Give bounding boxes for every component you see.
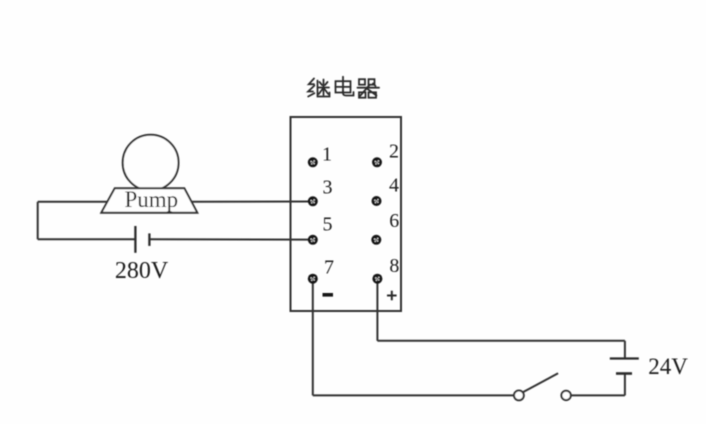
switch left contact [514,391,524,401]
relay label 继电器 (hand-drawn CJK glyphs) [308,77,379,98]
pump trapezoid [101,188,197,213]
wire battery 24V top lead [624,341,626,359]
wire left vertical [37,202,39,240]
battery 24V long plate [610,357,639,359]
pin 7 [308,274,318,284]
器 [359,79,365,85]
polarity minus at pin 7 [323,293,334,297]
svg-text:24V: 24V [648,354,688,379]
battery 280V long plate [134,226,136,253]
pump motor circle [123,135,179,191]
wire switch to battery 24V [571,394,625,396]
继 [309,79,314,85]
wire battery 24V bottom lead [624,374,626,396]
pin 1 [308,157,318,167]
pin 8 [372,274,382,284]
svg-text:Pump: Pump [124,187,178,212]
wire pin 8 down [376,279,378,341]
pin 4 [372,196,382,206]
svg-text:280V: 280V [115,258,169,284]
wire bottom to switch [313,394,514,396]
wire pump-left to corner [38,201,108,203]
pin 2 [372,157,382,167]
svg-text:6: 6 [389,210,399,232]
battery 280V short plate [148,233,150,246]
wire pump-right to pin 3 [191,201,312,203]
wire battery 280V to pin 5 [149,238,312,240]
svg-text:3: 3 [323,177,333,199]
svg-text:5: 5 [323,214,333,236]
svg-text:7: 7 [324,257,334,279]
wire top-right horizontal [377,340,625,342]
pin 5 [308,235,318,245]
relay box U1 [291,117,402,311]
svg-text:2: 2 [389,141,399,163]
电 [342,77,344,93]
svg-text:4: 4 [389,175,399,197]
pin 3 [308,196,318,206]
battery 24V short plate [616,372,632,375]
wire pin 7 down [312,279,314,396]
switch right contact [561,391,570,400]
polarity plus at pin 8 [387,291,397,301]
switch lever [523,373,558,392]
svg-text:8: 8 [389,255,399,277]
wire corner to battery 280V [38,238,136,240]
svg-text:1: 1 [322,144,332,166]
pin 6 [371,235,381,245]
